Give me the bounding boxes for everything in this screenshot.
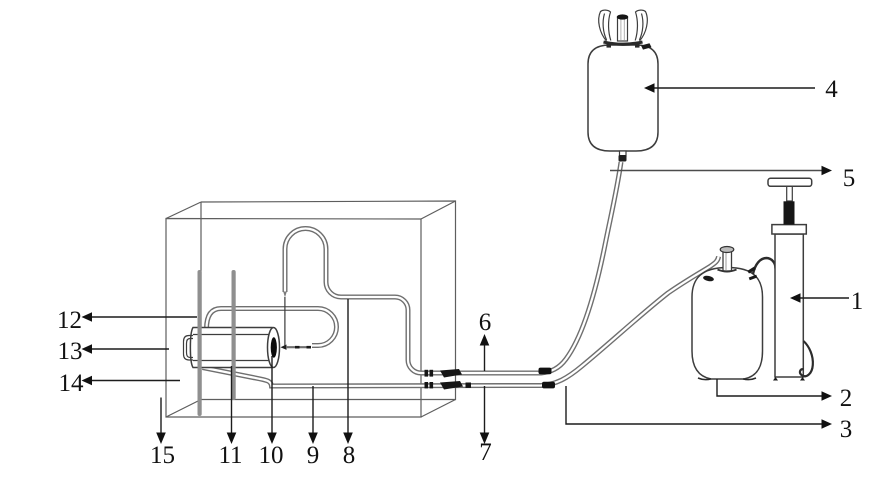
hose bottle 2 to pump (747, 258, 775, 280)
tube from cell top-left with U-turn return (207, 309, 337, 346)
leader arrow 14 (82, 376, 181, 386)
tube 9 from cell bottom to box exit (to bottle) (203, 257, 719, 387)
leader arrow 4 (644, 83, 815, 93)
label 9 (307, 442, 320, 469)
leader arrow 2 (717, 379, 832, 401)
bottle 2 shoulder blob (703, 275, 715, 282)
svg-text:2: 2 (840, 385, 853, 412)
chamber box wireframe (166, 201, 456, 417)
svg-text:8: 8 (343, 442, 356, 469)
label 14 (59, 370, 85, 397)
label 10 (259, 442, 284, 469)
bottle 2 valve stem (718, 247, 737, 272)
tube fittings at box wall lower (425, 381, 472, 390)
inlet needle with flow arrow into cell aperture (281, 345, 312, 350)
label 7 (479, 439, 492, 466)
pump 1 feet (773, 377, 805, 381)
label 1 (851, 288, 864, 315)
fitting on tube to cylinder 4 (539, 368, 552, 375)
svg-text:14: 14 (59, 370, 85, 397)
leader arrow 15 (156, 398, 166, 445)
cell window flange (184, 336, 194, 361)
svg-text:9: 9 (307, 442, 320, 469)
cylinder 4 left handle horn (599, 10, 611, 41)
svg-text:12: 12 (57, 307, 82, 334)
svg-text:13: 13 (58, 338, 83, 365)
svg-text:15: 15 (150, 442, 175, 469)
svg-text:4: 4 (825, 76, 838, 103)
label 2 (840, 385, 853, 412)
label 12 (57, 307, 82, 334)
svg-text:7: 7 (479, 439, 492, 466)
label 13 (58, 338, 83, 365)
tube fittings at box wall upper (425, 369, 463, 378)
label 15 (150, 442, 175, 469)
label 3 (840, 416, 853, 443)
leader arrow 9 (308, 386, 318, 444)
leader arrow 13 (82, 344, 170, 354)
svg-text:5: 5 (843, 165, 856, 192)
probe needle from loop into cell (283, 292, 287, 347)
leader arrow 5 (610, 166, 832, 176)
gas cylinder 4 body (588, 45, 658, 151)
hand pump 1 body (772, 225, 806, 377)
svg-text:6: 6 (479, 309, 492, 336)
fitting on tube to bottle 2 (542, 382, 555, 389)
leader arrow 11 (227, 366, 237, 444)
cylinder 4 bottom outlet (619, 151, 627, 162)
cylinder 4 shoulder fitting (641, 43, 652, 49)
leader arrow 8 (343, 299, 353, 444)
leader arrow 3 (566, 386, 832, 429)
svg-text:11: 11 (218, 442, 242, 469)
label 4 (825, 76, 838, 103)
svg-text:1: 1 (851, 288, 864, 315)
svg-text:10: 10 (259, 442, 284, 469)
label 5 (843, 165, 856, 192)
leader arrow 1 (790, 293, 849, 303)
gas cell cylinder 10 (190, 328, 279, 368)
label 8 (343, 442, 356, 469)
leader arrow 12 (82, 312, 198, 322)
cylinder 4 right handle horn (635, 10, 647, 41)
pump 1 dangling hose (800, 341, 813, 376)
cylinder 4 valve stem (617, 14, 629, 41)
support rod right (11) (232, 270, 236, 400)
main loop tube 8 to box exit and up to cylinder 4 (285, 162, 621, 373)
svg-text:3: 3 (840, 416, 853, 443)
bottle 2 body (692, 268, 763, 380)
leader arrow 10 (267, 356, 277, 444)
pump 1 plunger rod and seal (784, 186, 795, 225)
cylinder 4 valve collar (604, 42, 643, 48)
leader arrow 6 (480, 334, 490, 371)
support rod left (12) (198, 270, 202, 416)
leader arrow 7 (480, 386, 490, 444)
label 6 (479, 309, 492, 336)
pump 1 T-handle (768, 178, 812, 186)
label 11 (218, 442, 242, 469)
